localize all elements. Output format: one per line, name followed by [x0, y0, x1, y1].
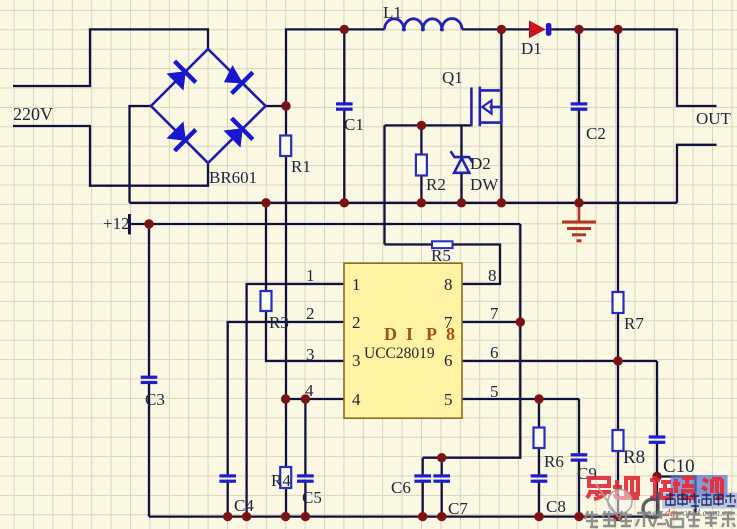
- wire C3 bottom: [148, 383, 150, 517]
- wire bottom ground rail: [149, 515, 657, 517]
- wire C2 bottom: [578, 110, 580, 203]
- node C2 ground: [574, 198, 583, 207]
- wire R8 top: [617, 361, 619, 430]
- wire C9 top: [578, 399, 580, 453]
- wire top rail D1 to OUT upper stub: [549, 29, 717, 106]
- svg-text:+12: +12: [103, 214, 130, 233]
- wire OUT lower stub to ground rail: [677, 145, 717, 203]
- node pin4 R1 R4: [281, 394, 290, 403]
- resistor R3: [261, 291, 272, 311]
- svg-text:4: 4: [352, 390, 361, 409]
- node rail C4: [223, 512, 232, 521]
- wire C1 top: [343, 29, 345, 102]
- wire R6 top: [538, 399, 540, 428]
- capacitor C2: [571, 102, 588, 110]
- wire C10 to bottom rail: [656, 477, 658, 517]
- wire R8 bottom: [617, 451, 619, 517]
- inductor L1: [385, 19, 463, 32]
- svg-text:OUT: OUT: [696, 109, 732, 128]
- svg-text:Q1: Q1: [442, 68, 463, 87]
- svg-text:C7: C7: [448, 499, 468, 518]
- wire R6 to C8: [538, 448, 540, 475]
- wire R7 top from top rail: [617, 29, 619, 292]
- wire +12 drop to pin 7 and C6 C7 tie: [423, 224, 521, 458]
- resistor R5: [432, 241, 453, 248]
- node rail R4: [281, 512, 290, 521]
- svg-text:C10: C10: [663, 456, 695, 477]
- transistor Q1: [471, 87, 502, 127]
- resistor R8: [613, 430, 624, 451]
- wire C5 top: [304, 399, 306, 475]
- wire IC pin 7 stub: [462, 321, 520, 323]
- watermark logo blue tiles: [671, 475, 728, 498]
- node +12 C3: [144, 219, 153, 228]
- wire R5 left: [385, 243, 433, 245]
- wire IC pin 2 to C4: [228, 322, 344, 475]
- svg-text:C5: C5: [302, 488, 322, 507]
- node pin5 R6: [534, 394, 543, 403]
- svg-text:C9: C9: [577, 464, 597, 483]
- wire C6 bottom: [422, 482, 424, 517]
- bridge diode top-left: [168, 61, 196, 89]
- svg-text:3: 3: [352, 351, 361, 370]
- resistor R7: [613, 292, 624, 313]
- svg-text:D1: D1: [521, 39, 542, 58]
- wire bottom right stub: [657, 477, 696, 514]
- node C7 top: [437, 453, 446, 462]
- wire C3 top: [148, 224, 150, 376]
- wire C10 top: [656, 361, 658, 436]
- wire R4 top: [285, 399, 287, 467]
- wire C1 bottom: [343, 110, 345, 203]
- svg-text:5: 5: [490, 382, 499, 401]
- svg-text:C2: C2: [586, 124, 606, 143]
- svg-text:8: 8: [444, 275, 453, 294]
- wire ground rail: [130, 202, 678, 204]
- svg-text:L1: L1: [383, 3, 402, 22]
- svg-text:R1: R1: [291, 157, 311, 176]
- svg-text:DW: DW: [470, 175, 499, 194]
- wire AC line 2 (220V bottom to bridge bottom vertex): [13, 126, 208, 186]
- svg-text:R2: R2: [426, 175, 446, 194]
- svg-text:R5: R5: [431, 246, 451, 265]
- svg-text:C1: C1: [344, 115, 364, 134]
- capacitor C10: [649, 435, 666, 444]
- svg-text:R4: R4: [271, 471, 291, 490]
- wire IC pin 6 line: [462, 360, 657, 362]
- node rail C5: [301, 512, 310, 521]
- wire C7 top: [441, 458, 443, 475]
- svg-text:D2: D2: [470, 154, 491, 173]
- svg-text:C3: C3: [145, 390, 165, 409]
- wire C4 bottom: [227, 482, 229, 517]
- watermark logo circle: [608, 490, 632, 514]
- watermark blue row chars: [666, 493, 735, 506]
- svg-text:7: 7: [490, 304, 499, 323]
- ground: [562, 203, 596, 241]
- bridge rectifier BR601: [151, 49, 266, 163]
- svg-text:R8: R8: [623, 447, 645, 468]
- node Q1 source ground: [497, 198, 506, 207]
- svg-text:C4: C4: [234, 496, 254, 515]
- watermark red char yi: [587, 478, 611, 499]
- node R7 top: [613, 25, 622, 34]
- svg-text:6: 6: [444, 351, 453, 370]
- wire C2 top: [578, 29, 580, 102]
- svg-text:5: 5: [444, 390, 453, 409]
- watermark logo pen stroke: [596, 484, 618, 517]
- node C1 ground: [340, 198, 349, 207]
- watermark logo d glyph: [643, 492, 658, 518]
- node R2 gate: [417, 121, 426, 130]
- wire D2 top: [460, 125, 462, 157]
- svg-text:UCC28019: UCC28019: [364, 345, 435, 362]
- wire Q1 source to ground rail: [500, 107, 502, 203]
- svg-text:1: 1: [306, 266, 315, 285]
- wire IC pin 4 line: [286, 398, 344, 400]
- svg-text:R6: R6: [544, 452, 564, 471]
- node R2 ground: [417, 198, 426, 207]
- wire R1 top: [285, 106, 287, 136]
- wire top rail between L1 and D1: [462, 28, 529, 30]
- resistor R1: [280, 136, 291, 157]
- node rail C9: [574, 512, 583, 521]
- node C2 top: [574, 25, 583, 34]
- wire C9 bottom: [578, 462, 580, 517]
- wire R5 right to IC pin 8: [453, 245, 501, 285]
- bridge diode top-right: [225, 66, 253, 93]
- capacitor C6: [414, 474, 431, 483]
- wire R2 bottom: [420, 176, 422, 203]
- wire AC line 1 (220V top to bridge top vertex): [13, 29, 208, 86]
- wire R3 bottom to IC pin 3: [266, 311, 344, 361]
- node pin7 vcc: [516, 317, 525, 326]
- capacitor C7: [433, 474, 450, 483]
- capacitor C4: [219, 474, 236, 483]
- svg-text:R3: R3: [269, 313, 289, 332]
- watermark red char xun: [702, 479, 722, 498]
- node C10 bottom: [652, 472, 661, 481]
- svg-text:2: 2: [352, 313, 361, 332]
- wire bridge minus to ground rail: [130, 106, 152, 203]
- node pin6 R7 R8: [613, 356, 622, 365]
- op-amp U1 UCC28019 DIP8 body: [344, 263, 462, 418]
- svg-text:BR601: BR601: [209, 168, 257, 187]
- svg-text:4: 4: [305, 381, 314, 400]
- node pin4 C5: [301, 394, 310, 403]
- node rail pin1: [242, 512, 251, 521]
- svg-text:3: 3: [306, 345, 315, 364]
- node bridge plus: [281, 101, 290, 110]
- wire C8 bottom: [538, 482, 540, 517]
- capacitor C1: [336, 102, 353, 110]
- watermark gray bottom row: [585, 511, 735, 527]
- watermark red char di: [613, 476, 639, 498]
- svg-text:C8: C8: [546, 497, 566, 516]
- wire Q1 drain: [500, 29, 502, 107]
- bridge diode bottom-right: [225, 118, 253, 146]
- wire C5 bottom: [304, 482, 306, 517]
- wire R1 bottom down to pin4 line: [285, 156, 287, 400]
- capacitor C8: [531, 474, 548, 483]
- zener diode D2: [451, 151, 473, 173]
- svg-text:1: 1: [352, 275, 361, 294]
- wire C7 bottom: [441, 482, 443, 517]
- capacitor C3: [141, 376, 158, 385]
- wire IC pin 5 line: [462, 398, 579, 400]
- node rail C6: [418, 512, 427, 521]
- node rail R8: [613, 512, 622, 521]
- node C1 top: [340, 25, 349, 34]
- resistor R4: [280, 467, 291, 488]
- node rail C8: [534, 512, 543, 521]
- resistor R2: [416, 155, 427, 176]
- svg-text:6: 6: [490, 343, 499, 362]
- capacitor C9: [571, 453, 588, 462]
- svg-text:8: 8: [488, 266, 497, 285]
- capacitor C5: [297, 474, 314, 483]
- diode D1: [530, 21, 552, 37]
- wire R2 top: [420, 125, 422, 154]
- bridge diamond edges: [151, 49, 266, 163]
- svg-text:2: 2: [306, 304, 315, 323]
- svg-text:R7: R7: [624, 314, 644, 333]
- wire bridge plus: [266, 105, 286, 107]
- wire C10 bottom: [656, 443, 658, 477]
- wire Q1 gate line: [385, 124, 472, 126]
- node Q1 drain top: [497, 25, 506, 34]
- node R3 ground: [261, 198, 270, 207]
- svg-text:220V: 220V: [13, 104, 53, 124]
- wire R3 top from ground rail: [265, 203, 267, 291]
- svg-text:C6: C6: [391, 478, 411, 497]
- node D2 ground: [457, 198, 466, 207]
- wire gate riser down to R5: [383, 125, 385, 244]
- node rail C7: [437, 512, 446, 521]
- wire R7 bottom: [617, 313, 619, 361]
- resistor R6: [534, 428, 545, 449]
- wire C6 top: [422, 458, 424, 475]
- wire boost riser and top rail left: [286, 29, 385, 106]
- bridge diode bottom-left: [168, 123, 196, 151]
- watermark red char pei: [673, 478, 694, 498]
- wire IC pin 1 to bottom rail: [247, 284, 344, 517]
- wire +12 rail: [130, 223, 521, 225]
- terminal +12: [128, 214, 131, 234]
- watermark red char tuo: [650, 476, 671, 498]
- wire D2 bottom: [460, 173, 462, 203]
- wire R4 bottom: [285, 488, 287, 517]
